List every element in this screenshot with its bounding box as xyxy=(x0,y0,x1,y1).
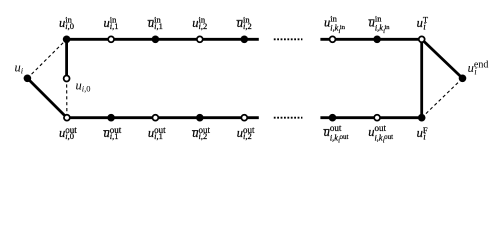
svg-text:i,1: i,1 xyxy=(154,21,163,31)
node u_i,k^out (open) xyxy=(374,115,380,121)
svg-text:i: i xyxy=(21,65,24,75)
label u_i,k^in xyxy=(324,14,346,35)
label ubar_i,k^out xyxy=(323,123,348,144)
svg-text:i,k: i,k xyxy=(375,133,383,142)
label u_i^end xyxy=(468,60,489,77)
svg-text:i,1: i,1 xyxy=(154,131,163,141)
svg-text:i,0: i,0 xyxy=(65,131,74,141)
label u_i,2^in xyxy=(192,15,207,31)
node u_i,0^in (filled) xyxy=(63,36,71,44)
wire top-row right segment xyxy=(320,38,421,41)
svg-text:i,2: i,2 xyxy=(199,21,208,31)
svg-text:i,0: i,0 xyxy=(65,21,74,31)
node ubar_i,1^out (filled) xyxy=(107,114,115,122)
svg-text:i,1: i,1 xyxy=(110,21,119,31)
label u_i,0^out xyxy=(59,125,77,141)
wire u_i^T to u_i^end xyxy=(422,39,463,78)
label u_i,1^in xyxy=(104,15,119,31)
node ubar_i,2^out (filled) xyxy=(196,114,204,122)
wire u_i^T to u_i^F xyxy=(420,39,423,117)
node u_i (filled) xyxy=(24,75,32,83)
svg-text:i,2: i,2 xyxy=(199,131,208,141)
svg-text:in: in xyxy=(385,24,391,31)
svg-text:i,k: i,k xyxy=(375,24,383,33)
label u_i,1^out xyxy=(148,125,166,141)
label u_i,0 xyxy=(76,78,91,93)
label u_i^F xyxy=(417,125,428,142)
svg-text:i,2: i,2 xyxy=(243,131,252,141)
svg-text:i,k: i,k xyxy=(330,24,338,33)
label u_i,0^in xyxy=(59,15,74,31)
svg-text:i,2: i,2 xyxy=(243,21,252,31)
svg-text:out: out xyxy=(340,133,349,141)
node ubar_i,k^in (filled) xyxy=(373,36,381,44)
wire top-row ellipsis dots xyxy=(274,38,303,40)
node u_i,2^in (open) xyxy=(197,36,203,42)
node u_i^T (open) xyxy=(419,36,425,42)
wire u_i to u_i,0^out xyxy=(27,78,67,117)
node u_i,k^in (open) xyxy=(330,36,336,42)
wire dashed u_i^F to u_i^end xyxy=(422,78,463,117)
node u_i,2^out (open) xyxy=(241,115,247,121)
wire dashed u_i to u_i,0^in xyxy=(27,39,66,78)
node u_i^F (filled) xyxy=(418,114,426,122)
node u_i,0 (open) xyxy=(64,76,70,82)
svg-text:in: in xyxy=(330,14,337,24)
label u_i^T xyxy=(417,15,429,32)
node u_i,0^out (open) xyxy=(64,115,70,121)
wire top-row left segment xyxy=(67,38,259,41)
wire dashed u_i,0 to u_i,0^out xyxy=(66,79,68,118)
svg-text:in: in xyxy=(340,24,346,31)
svg-text:i,1: i,1 xyxy=(110,131,119,141)
node ubar_i,k^out (filled) xyxy=(329,114,337,122)
label ubar_i,2^in xyxy=(236,15,251,31)
label u_i xyxy=(15,60,24,75)
label u_i,k^out xyxy=(368,123,393,144)
svg-text:out: out xyxy=(384,133,393,141)
node ubar_i,2^in (filled) xyxy=(241,36,249,44)
label ubar_i,k^in xyxy=(368,14,390,35)
node u_i,1^out (open) xyxy=(152,115,158,121)
svg-text:i,0: i,0 xyxy=(82,83,91,93)
svg-text:out: out xyxy=(375,123,387,133)
wire bottom-row right segment xyxy=(320,116,421,119)
label ubar_i,2^out xyxy=(192,125,211,141)
wire bottom-row ellipsis dots xyxy=(274,117,303,119)
svg-text:in: in xyxy=(375,14,382,24)
label u_i,2^out xyxy=(237,125,255,141)
svg-text:i,k: i,k xyxy=(330,133,338,142)
node u_i,1^in (open) xyxy=(108,36,114,42)
label ubar_i,1^out xyxy=(103,125,122,141)
node u_i^end (filled) xyxy=(459,75,467,83)
svg-text:out: out xyxy=(330,123,342,133)
node ubar_i,1^in (filled) xyxy=(152,36,160,44)
wire bottom-row left segment xyxy=(67,116,259,119)
label ubar_i,1^in xyxy=(148,15,163,31)
wire u_i,0^in to u_i,0 xyxy=(65,39,68,78)
